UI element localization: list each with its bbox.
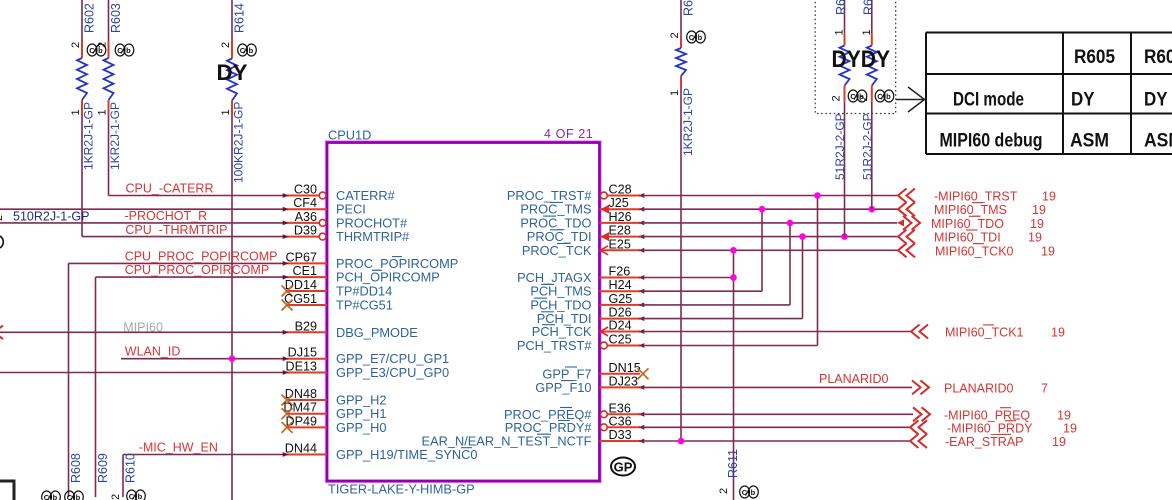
no-connect X DD14 <box>282 286 293 297</box>
dashed variant box <box>815 0 896 114</box>
op-amp/IC CPU1D main block <box>327 143 600 482</box>
svg-text:2: 2 <box>718 488 730 494</box>
svg-text:1KR2J-1-GP: 1KR2J-1-GP <box>681 88 695 156</box>
svg-text:TP#DD14: TP#DD14 <box>336 284 392 299</box>
svg-text:2: 2 <box>70 42 82 48</box>
svg-text:2: 2 <box>858 95 870 101</box>
svg-text:G25: G25 <box>609 292 633 306</box>
svg-text:b: b <box>751 488 756 497</box>
wire riser PCH_TRST# to PROC_TRST# net <box>817 196 819 346</box>
svg-text:J25: J25 <box>609 196 629 210</box>
off-page connector -MIPI60_PRDY <box>910 420 927 434</box>
svg-text:E36: E36 <box>609 401 631 415</box>
pin DE13 GPP_E3/CPU_GP0 <box>283 360 449 381</box>
svg-text:b: b <box>76 493 81 500</box>
svg-text:WLAN_ID: WLAN_ID <box>125 345 181 359</box>
no-connect X DM47 <box>282 408 293 419</box>
svg-text:CPU_-THRMTRIP: CPU_-THRMTRIP <box>125 223 227 237</box>
svg-text:19: 19 <box>1042 190 1056 204</box>
svg-text:CPU_PROC_POPIRCOMP: CPU_PROC_POPIRCOMP <box>125 250 278 264</box>
svg-text:C: C <box>89 46 95 55</box>
variant table <box>926 33 1172 155</box>
svg-text:b: b <box>249 46 254 55</box>
wire E36 row / -MIPI60_PREQ <box>640 413 913 415</box>
svg-text:DN48: DN48 <box>285 387 317 401</box>
wire H26 row / MIPI60_TDO <box>640 222 897 224</box>
resistor R606 (51R2J DCI strap) <box>831 0 867 237</box>
junction TDI net / R606 <box>841 233 848 240</box>
svg-text:C30: C30 <box>294 183 317 197</box>
R608 variant stamp <box>42 491 61 500</box>
svg-text:19: 19 <box>1032 203 1046 217</box>
pin E36 PROC_PREQ# <box>504 401 644 422</box>
wire CPU_PROC_OPIRCOMP net (R609 column to pin CE1) <box>96 276 288 278</box>
pin B29 DBG_PMODE <box>283 319 418 340</box>
junction TMS net / R607 <box>869 206 876 213</box>
wire WLAN_ID net (R610... to pin DJ15, junction with R614 column) <box>121 358 287 360</box>
svg-text:DY: DY <box>1144 90 1168 111</box>
svg-text:1: 1 <box>97 109 109 115</box>
svg-text:51R2J-2-GP: 51R2J-2-GP <box>860 113 874 180</box>
svg-text:DN15: DN15 <box>609 361 641 375</box>
pin CF4 PECI <box>283 196 366 217</box>
svg-text:H26: H26 <box>609 210 632 224</box>
svg-text:19: 19 <box>1041 244 1055 258</box>
svg-text:D26: D26 <box>609 306 632 320</box>
GP stamp <box>611 458 635 476</box>
junction TCK0 net <box>730 247 737 254</box>
svg-text:C: C <box>117 46 123 55</box>
junction TDO net <box>787 220 794 227</box>
svg-text:C: C <box>129 492 135 500</box>
pin A36 PROCHOT# <box>283 210 408 231</box>
pin F26 PCH_JTAGX <box>517 265 644 286</box>
svg-text:1: 1 <box>834 29 846 35</box>
svg-text:PROC_TCK: PROC_TCK <box>522 243 592 258</box>
svg-text:GPP_E7/CPU_GP1: GPP_E7/CPU_GP1 <box>336 351 449 366</box>
corner of block below-left <box>0 481 14 500</box>
svg-text:GPP_F10: GPP_F10 <box>535 380 591 395</box>
svg-text:510R2J-1-GP: 510R2J-1-GP <box>13 210 89 224</box>
wire F26 row PCH_JTAGX <box>640 277 734 279</box>
svg-text:R606: R606 <box>834 0 848 15</box>
R607 zigzag <box>867 46 877 86</box>
junction TDI net / PCH_TDI <box>799 233 806 240</box>
svg-text:R606: R606 <box>1144 47 1172 68</box>
svg-text:C: C <box>44 493 50 500</box>
svg-text:b: b <box>698 33 703 42</box>
wire R614 column down to bottom edge (through WLAN_ID) <box>231 116 233 500</box>
wire D24 row / MIPI60_TCK1 <box>640 331 911 333</box>
no-connect X CG51 <box>282 300 293 311</box>
svg-text:19: 19 <box>1030 217 1044 231</box>
wire C25 row PCH_TRST# <box>640 345 818 347</box>
svg-text:DJ15: DJ15 <box>288 346 317 360</box>
junction EAR net / mid resistor <box>678 438 685 445</box>
svg-text:R611: R611 <box>726 449 740 478</box>
pin D26 PCH_TDI <box>537 306 645 327</box>
pin DP49 GPP_H0 <box>282 414 387 435</box>
svg-text:1KR2J-1-GP: 1KR2J-1-GP <box>108 102 122 170</box>
svg-text:GP: GP <box>614 460 633 475</box>
off-page connector MIPI60_TCK1 <box>911 325 928 339</box>
wire riser PCH_TDO to PROC_TDO net <box>789 223 791 305</box>
svg-text:PCH_OPIRCOMP: PCH_OPIRCOMP <box>336 270 440 285</box>
wire E28 row / MIPI60_TDI <box>640 236 898 238</box>
wire R606 column down to JTAG net <box>844 101 846 236</box>
pin DN48 GPP_H2 <box>282 387 387 408</box>
svg-text:E28: E28 <box>609 224 631 238</box>
pin DM47 GPP_H1 <box>282 401 387 422</box>
svg-text:MIPI60: MIPI60 <box>123 320 163 334</box>
off-page connector MIPI60_TDO <box>903 216 920 230</box>
wire DBG_PMODE net from left edge to pin B29 <box>0 331 287 333</box>
svg-text:R610: R610 <box>124 453 138 483</box>
svg-text:PLANARID0: PLANARID0 <box>944 381 1014 395</box>
pin E25 PROC_TCK <box>522 237 644 257</box>
svg-text:C: C <box>850 92 856 101</box>
svg-text:-MIPI60_TRST: -MIPI60_TRST <box>934 190 1018 204</box>
svg-text:1: 1 <box>220 109 232 115</box>
svg-text:C36: C36 <box>609 414 632 428</box>
junction TMS net / PCH_TMS <box>759 206 766 213</box>
R602 variant stamp <box>87 44 106 56</box>
wire PECI net from left edge (510R2J resistor off-page) to pin CF4 <box>0 208 287 210</box>
svg-text:EAR_N/EAR_N_TEST_NCTF: EAR_N/EAR_N_TEST_NCTF <box>422 434 592 449</box>
svg-text:MIPI60 debug: MIPI60 debug <box>940 131 1043 152</box>
resistor R602 <box>70 0 106 237</box>
svg-text:C: C <box>877 92 883 101</box>
R603 zigzag <box>104 58 114 100</box>
R610 variant stamp <box>127 490 146 500</box>
svg-text:1: 1 <box>861 29 873 35</box>
pin DN44 GPP_H19/TIME_SYNC0 <box>283 442 478 463</box>
junction PCH_JTAGX / R611 column <box>730 274 737 281</box>
svg-text:-EAR_STRAP: -EAR_STRAP <box>945 435 1024 449</box>
R611 variant stamp <box>740 486 759 498</box>
no-connect X DN15 <box>638 368 649 379</box>
svg-text:R605: R605 <box>1074 47 1115 68</box>
wire R603 to CATERR row <box>108 116 110 196</box>
svg-text:C: C <box>67 493 73 500</box>
svg-text:19: 19 <box>1063 421 1077 435</box>
pin D39 THRMTRIP# <box>283 224 410 245</box>
svg-text:2: 2 <box>97 42 109 48</box>
R604 variant stamp <box>687 31 706 43</box>
R606 zigzag <box>840 46 850 86</box>
svg-text:CPU_PROC_OPIRCOMP: CPU_PROC_OPIRCOMP <box>125 263 269 277</box>
svg-text:CE1: CE1 <box>293 264 318 278</box>
R604 zigzag <box>676 48 686 76</box>
svg-text:TIGER-LAKE-Y-HIMB-GP: TIGER-LAKE-Y-HIMB-GP <box>328 482 475 497</box>
wire CPU_-THRMTRIP net (R602 to pin D39) <box>82 236 287 238</box>
svg-text:-MIPI60_PRDY: -MIPI60_PRDY <box>947 421 1033 435</box>
svg-text:DJ23: DJ23 <box>609 374 638 388</box>
wire C36 row / -MIPI60_PRDY <box>640 426 910 428</box>
svg-text:C: C <box>240 46 246 55</box>
svg-text:A36: A36 <box>295 210 317 224</box>
svg-text:51R2J-2-GP: 51R2J-2-GP <box>833 113 847 180</box>
svg-text:2: 2 <box>220 42 232 48</box>
off-page connector MIPI60_TDI <box>898 230 915 244</box>
svg-text:R604: R604 <box>682 0 696 16</box>
svg-text:19: 19 <box>1052 435 1066 449</box>
cut-off stamp at left edge near 510R2J <box>0 236 3 248</box>
svg-text:DD14: DD14 <box>285 278 317 292</box>
resistor R608 column (PROC_POPIRCOMP pull) <box>68 263 70 497</box>
pin DN15 GPP_F7 <box>542 361 648 382</box>
pin D24 PCH_TCK <box>532 319 645 340</box>
svg-text:4 OF 21: 4 OF 21 <box>544 127 593 141</box>
resistor R614 <box>217 0 257 500</box>
svg-text:MIPI60_TCK0: MIPI60_TCK0 <box>935 244 1014 258</box>
svg-text:19: 19 <box>1057 408 1071 422</box>
R609 variant stamp <box>65 491 84 500</box>
svg-text:B29: B29 <box>295 319 317 333</box>
svg-text:MIPI60_TDO: MIPI60_TDO <box>931 217 1004 231</box>
svg-text:b: b <box>886 92 891 101</box>
svg-text:ASM: ASM <box>1070 131 1109 152</box>
svg-text:DE13: DE13 <box>285 360 317 374</box>
junction WLAN_ID / R614 <box>229 355 236 362</box>
resistor R609 column (PCH_OPIRCOMP pull) <box>95 277 97 497</box>
svg-text:19: 19 <box>1028 231 1042 245</box>
resistor R607 (51R2J DCI strap) <box>858 0 894 209</box>
svg-text:19: 19 <box>1051 326 1065 340</box>
pin C28 PROC_TRST# <box>507 183 644 204</box>
pin CE1 PCH_OPIRCOMP <box>283 264 440 285</box>
svg-text:C28: C28 <box>609 183 632 197</box>
svg-text:1: 1 <box>70 109 82 115</box>
svg-text:GPP_H19/TIME_SYNC0: GPP_H19/TIME_SYNC0 <box>336 447 478 462</box>
wire -PROCHOT_R net from left edge to pin A36 <box>0 222 287 224</box>
svg-text:C25: C25 <box>609 333 632 347</box>
wire riser PCH_TDI to PROC_TDI net <box>802 237 804 319</box>
no-connect X DP49 <box>282 422 293 433</box>
wire R607 column down to JTAG net <box>871 101 873 209</box>
svg-text:R602: R602 <box>83 3 97 33</box>
svg-text:C: C <box>689 33 695 42</box>
svg-text:b: b <box>138 492 143 500</box>
remnant of off-page chevron at left edge (B29 row) <box>0 326 3 340</box>
resistor R603 <box>97 0 134 196</box>
pin CG51 TP#CG51 <box>282 292 393 313</box>
svg-text:CPU_-CATERR: CPU_-CATERR <box>126 182 214 196</box>
arrow from dashed box to table <box>896 87 925 112</box>
svg-text:C: C <box>742 488 748 497</box>
svg-text:D24: D24 <box>609 319 632 333</box>
svg-text:GPP_E3/CPU_GP0: GPP_E3/CPU_GP0 <box>336 365 449 380</box>
wire H24 row PCH_TMS <box>640 290 762 292</box>
wire J25 row / MIPI60_TMS <box>640 208 898 210</box>
svg-text:2: 2 <box>110 494 122 500</box>
svg-text:b: b <box>126 46 131 55</box>
resistor R604 (1KR2J pull on EAR strap) <box>669 0 705 156</box>
pin J25 PROC_TMS <box>520 196 644 217</box>
svg-text:b: b <box>53 493 58 500</box>
resistor R610 column down from -MIC_HW_EN corner <box>122 455 124 498</box>
pin C30 CATERR# <box>283 183 396 204</box>
off-page connector -MIPI60_TRST <box>898 189 915 203</box>
off-page connector -MIPI60_PREQ <box>913 407 930 421</box>
pin D33 EAR_N/EAR_N_TEST_NCTF <box>422 428 645 449</box>
svg-text:CPU1D: CPU1D <box>328 128 371 143</box>
svg-text:R603: R603 <box>109 3 123 33</box>
wire mid resistor column to -EAR_STRAP net <box>680 88 682 441</box>
pin G25 PCH_TDO <box>530 292 644 313</box>
wire -MIC_HW_EN net (R610 corner to pin DN44) <box>123 454 287 456</box>
svg-text:D39: D39 <box>294 224 317 238</box>
svg-text:TP#CG51: TP#CG51 <box>336 298 393 313</box>
svg-text:DCI mode: DCI mode <box>953 90 1024 111</box>
svg-text:DYDY: DYDY <box>832 46 891 73</box>
svg-text:PCH_TRST#: PCH_TRST# <box>517 338 593 353</box>
wire G25 row PCH_TDO <box>640 304 790 306</box>
pin C36 PROC_PRDY# <box>505 414 645 435</box>
svg-text:DBG_PMODE: DBG_PMODE <box>336 325 418 340</box>
pin C25 PCH_TRST# <box>517 333 644 354</box>
svg-text:MIPI60_TMS: MIPI60_TMS <box>934 203 1007 217</box>
wire C28 row / -MIPI60_TRST <box>640 195 898 197</box>
pin H26 PROC_TDO <box>520 210 644 231</box>
svg-text:E25: E25 <box>609 237 631 251</box>
wire DJ23 row / PLANARID0 <box>640 386 912 388</box>
pin DD14 TP#DD14 <box>282 278 393 299</box>
svg-text:D33: D33 <box>609 428 632 442</box>
wire R602 to THRMTRIP row <box>81 116 83 237</box>
off-page connector -EAR_STRAP <box>910 434 927 448</box>
R614 variant stamp <box>238 44 257 56</box>
wire D26 row PCH_TDI <box>640 318 803 320</box>
svg-text:DY: DY <box>217 60 248 85</box>
svg-text:CF4: CF4 <box>293 196 317 210</box>
wire CPU_PROC_POPIRCOMP net (R608 column to pin CP67) <box>69 262 288 264</box>
svg-text:7: 7 <box>1041 381 1048 395</box>
svg-text:GPP_H0: GPP_H0 <box>336 420 387 435</box>
R614 zigzag <box>227 59 237 101</box>
svg-text:THRMTRIP#: THRMTRIP# <box>336 229 410 244</box>
wire GPP_E3 net from left edge to pin DE13 <box>0 372 287 374</box>
svg-text:R614: R614 <box>233 3 247 33</box>
R606 variant stamp <box>848 90 867 102</box>
svg-text:H24: H24 <box>609 278 632 292</box>
svg-text:R608: R608 <box>69 453 83 483</box>
svg-text:DP49: DP49 <box>285 414 317 428</box>
wire riser PCH_JTAGX/R611 column to PROC_TCK net <box>733 250 735 500</box>
wire riser PCH_TMS to PROC_TMS net <box>761 209 763 291</box>
pin DJ23 GPP_F10 <box>535 374 644 395</box>
svg-text:-MIC_HW_EN: -MIC_HW_EN <box>139 441 218 455</box>
svg-text:F26: F26 <box>609 265 631 279</box>
svg-text:PCH_TCK: PCH_TCK <box>532 324 592 339</box>
svg-text:-MIPI60_PREQ: -MIPI60_PREQ <box>944 408 1030 422</box>
svg-text:DY: DY <box>1071 90 1095 111</box>
svg-text:CP67: CP67 <box>285 250 317 264</box>
svg-text:DN44: DN44 <box>285 442 317 456</box>
svg-text:100KR2J-1-GP: 100KR2J-1-GP <box>232 102 246 183</box>
off-page connector PLANARID0 <box>912 380 929 394</box>
off-page connector MIPI60_TCK0 <box>898 243 915 257</box>
active-low overbars on pin/net names <box>372 202 577 447</box>
svg-text:-PROCHOT_R: -PROCHOT_R <box>125 209 208 223</box>
wire CPU_-CATERR net (R603 to pin C30) <box>109 195 288 197</box>
svg-text:MIPI60_TCK1: MIPI60_TCK1 <box>945 326 1024 340</box>
pin H24 PCH_TMS <box>530 278 644 299</box>
off-page connector MIPI60_TMS <box>898 202 915 216</box>
svg-text:ASM: ASM <box>1144 131 1172 152</box>
pin E28 PROC_TDI <box>527 224 645 245</box>
junction TRST net <box>814 192 821 199</box>
pin DJ15 GPP_E7/CPU_GP1 <box>283 346 449 367</box>
svg-text:1KR2J-1-GP: 1KR2J-1-GP <box>82 102 96 170</box>
svg-text:R607: R607 <box>861 0 875 15</box>
R602 zigzag <box>77 58 87 100</box>
svg-text:2: 2 <box>831 95 843 101</box>
pin CP67 PROC_POPIRCOMP <box>283 250 459 271</box>
svg-text:2: 2 <box>669 32 681 38</box>
wire E25 row / MIPI60_TCK0 <box>640 249 898 251</box>
svg-text:MIPI60_TDI: MIPI60_TDI <box>934 231 1001 245</box>
R603 variant stamp <box>115 44 134 56</box>
no-connect X DN48 <box>282 395 293 406</box>
svg-text:R609: R609 <box>96 453 110 483</box>
svg-text:1: 1 <box>669 90 681 96</box>
svg-text:2: 2 <box>0 215 5 221</box>
svg-text:PLANARID0: PLANARID0 <box>819 372 889 386</box>
R607 variant stamp <box>875 90 894 102</box>
wire D33 row / -EAR_STRAP <box>640 440 910 442</box>
